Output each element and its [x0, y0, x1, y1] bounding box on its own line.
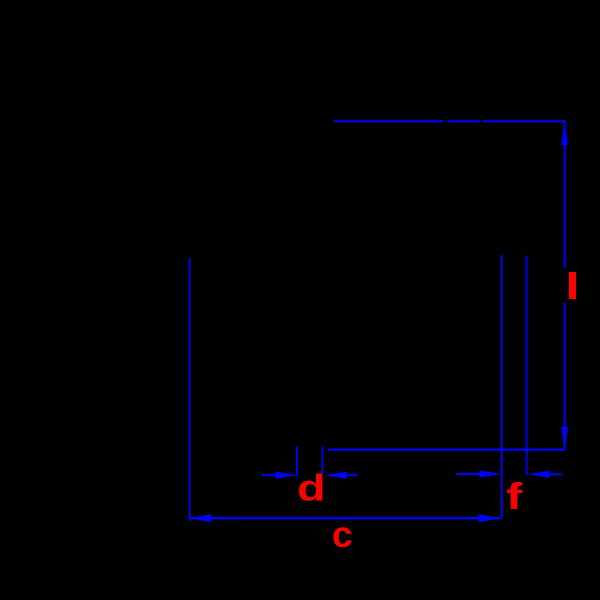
extension line right of d (x=323): [322, 447, 324, 475]
dimension line l (vertical, right side): [564, 121, 566, 450]
dimension d right arrowhead (pointing left): [325, 472, 347, 479]
svg-text:c: c: [332, 514, 353, 555]
arrowhead l bottom (pointing down): [561, 427, 568, 450]
extension line right of f (x=527): [526, 256, 528, 476]
dimension f left arrow tail: [456, 473, 480, 475]
svg-text:d: d: [297, 467, 325, 508]
label l: [569, 272, 576, 299]
dimension f left arrowhead (pointing right): [479, 470, 501, 477]
dimension line c: [190, 517, 500, 519]
dimension d left arrowhead (pointing right): [275, 472, 297, 479]
dimension f right arrowhead (pointing left): [527, 471, 549, 478]
dimension d right arrow tail: [347, 474, 358, 476]
dimension f right arrow tail: [549, 473, 561, 475]
arrowhead l top (pointing up): [561, 122, 568, 145]
extension line right of c / left of f (x=502): [501, 255, 503, 519]
svg-text:f: f: [506, 476, 523, 517]
dimension c right arrowhead (pointing right): [479, 514, 501, 522]
extension line left of c (x=190): [189, 258, 191, 521]
dimension d left arrow tail: [262, 474, 277, 476]
reference line bottom of l: [328, 449, 566, 451]
extension line left of d (x=297): [296, 447, 298, 477]
centerline (screw axis, top reference): [334, 120, 566, 122]
dimension c left arrowhead (pointing left): [189, 514, 211, 522]
